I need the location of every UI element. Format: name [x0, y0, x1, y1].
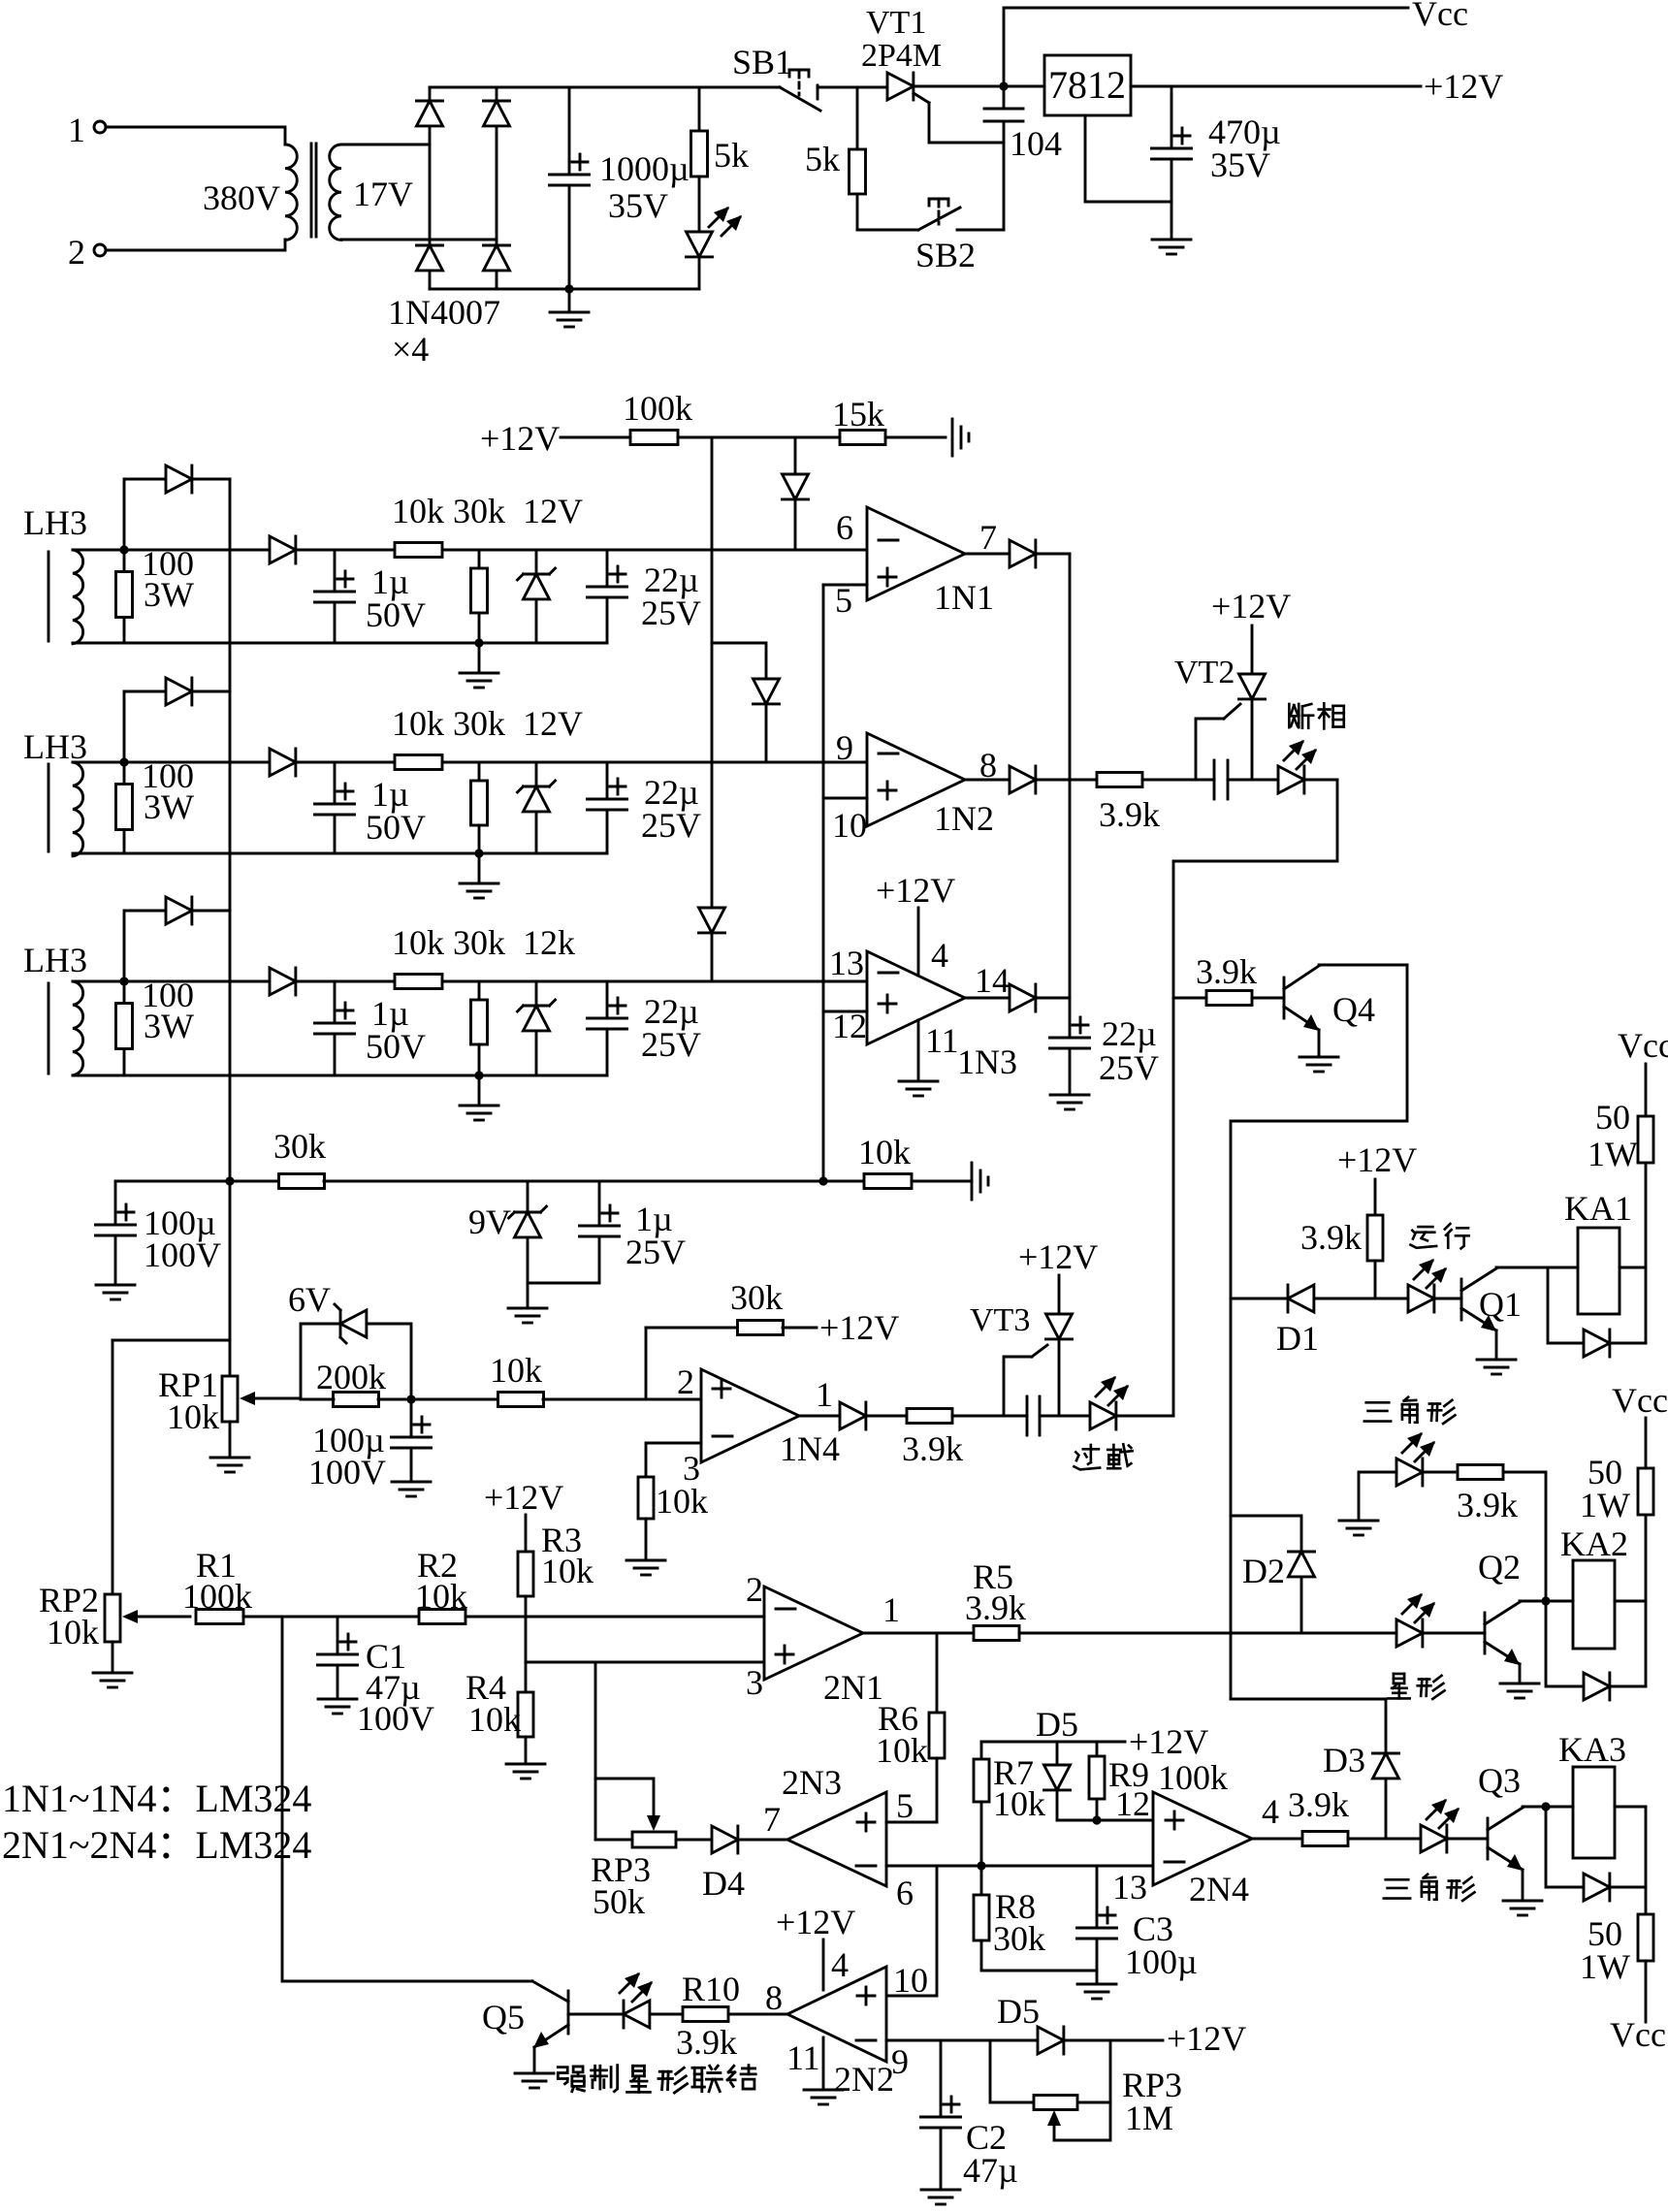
wire RP3 feed — [594, 1662, 597, 1840]
potentiometer RP3 1M — [990, 2040, 1182, 2140]
svg-text:SB2: SB2 — [915, 236, 976, 274]
svg-text:5: 5 — [896, 1786, 914, 1825]
ground — [460, 853, 498, 898]
wire 7812 ground — [1085, 115, 1171, 202]
svg-text:100µ: 100µ — [1125, 1942, 1198, 1981]
LED running — [1408, 1259, 1461, 1312]
diode D1 — [1276, 1285, 1408, 1358]
transformer T1 primary winding 380V — [203, 144, 297, 240]
svg-text:Q3: Q3 — [1478, 1761, 1521, 1800]
wire — [528, 1282, 599, 1285]
svg-text:1N3: 1N3 — [957, 1042, 1017, 1081]
svg-text:25V: 25V — [641, 1025, 701, 1064]
net Vcc KA3 — [1610, 1961, 1666, 2054]
node — [119, 757, 128, 766]
svg-text:9V: 9V — [468, 1202, 511, 1241]
node — [564, 284, 573, 293]
chassis ground — [952, 419, 969, 456]
wire — [341, 144, 430, 146]
resistor 30k — [453, 923, 505, 1075]
label pin1 — [816, 1375, 833, 1414]
capacitor coupling VT3 — [1027, 1396, 1090, 1435]
transistor Q4 — [1284, 965, 1407, 1072]
bridge diode D-a — [417, 87, 443, 245]
wire KA2 left leg — [1546, 1601, 1584, 1686]
bridge diode D-d — [484, 245, 510, 289]
svg-text:3.9k: 3.9k — [1300, 1218, 1362, 1257]
svg-text:KA3: KA3 — [1558, 1730, 1626, 1769]
diode bypass — [166, 678, 230, 705]
label pin10 — [893, 1961, 928, 2000]
svg-text:30k: 30k — [273, 1127, 326, 1166]
resistor 30k bias — [273, 1127, 864, 1189]
label force star text — [558, 2066, 755, 2093]
wire KA1 right leg — [1645, 1163, 1648, 1343]
svg-text:Vcc: Vcc — [1610, 2015, 1666, 2054]
op-amp 1N3 — [867, 951, 1017, 1081]
capacitor 22u 25V — [588, 762, 702, 853]
svg-text:14: 14 — [975, 961, 1010, 1000]
wire pin3 — [646, 1443, 701, 1477]
svg-text:6V: 6V — [288, 1280, 331, 1319]
ground — [460, 643, 498, 688]
label pin6 — [836, 508, 853, 547]
wire pin12 — [823, 1010, 867, 1013]
zener diode 12V — [518, 923, 576, 1075]
wire pin10 link — [886, 1866, 937, 1996]
svg-text:1N4: 1N4 — [780, 1429, 840, 1468]
wire pin10 — [823, 797, 867, 800]
svg-text:25V: 25V — [625, 1233, 686, 1271]
svg-text:+12V: +12V — [484, 1478, 563, 1517]
svg-text:25V: 25V — [1099, 1048, 1159, 1087]
wire bias rail — [115, 1180, 279, 1183]
svg-text:2N4: 2N4 — [1189, 1870, 1249, 1908]
resistor 3.9k 1N4 — [902, 1409, 1027, 1469]
label pin8 — [765, 1978, 783, 2017]
svg-text:×4: ×4 — [392, 330, 429, 369]
diode KA2 flyback — [1584, 1673, 1646, 1700]
svg-text:1N2: 1N2 — [934, 799, 994, 838]
ground — [1339, 1521, 1378, 1535]
svg-text:11: 11 — [925, 1021, 959, 1060]
wire bottom rail — [73, 1074, 607, 1077]
svg-text:10k: 10k — [392, 492, 444, 530]
transistor Q5 — [482, 1981, 568, 2088]
svg-text:3.9k: 3.9k — [902, 1429, 963, 1468]
svg-text:50k: 50k — [593, 1882, 645, 1921]
resistor 5k — [691, 87, 750, 232]
svg-text:D2: D2 — [1242, 1552, 1285, 1590]
label pin7 — [979, 518, 997, 557]
svg-text:10k: 10k — [415, 1577, 467, 1616]
wire bypass — [124, 691, 166, 762]
wire — [73, 549, 270, 552]
thyristor VT2 — [1174, 655, 1266, 780]
terminal 2 — [68, 233, 106, 272]
svg-text:50V: 50V — [366, 1027, 426, 1066]
capacitor 100u 100V (2) — [308, 1399, 432, 1496]
wire pin5 — [823, 584, 867, 587]
net +12V VT2 — [1211, 587, 1291, 674]
capacitor C3 100u — [1077, 1866, 1198, 1999]
svg-text:3W: 3W — [144, 575, 194, 614]
svg-text:4: 4 — [1262, 1792, 1279, 1831]
capacitor 1u 25V bias — [580, 1181, 687, 1283]
label pin13 — [829, 944, 864, 982]
node — [474, 1071, 483, 1079]
capacitor coupling VT2 — [1214, 760, 1278, 799]
svg-text:6: 6 — [896, 1874, 914, 1912]
wire pin5 2N3 — [886, 1821, 937, 1824]
current transformer LH3 — [23, 727, 87, 856]
svg-text:30k: 30k — [730, 1278, 783, 1317]
label yunxing — [1410, 1224, 1468, 1248]
svg-text:2: 2 — [746, 1570, 763, 1609]
svg-text:KA1: KA1 — [1564, 1189, 1632, 1228]
wire pin9 2N2 — [886, 2039, 990, 2042]
wire bypass — [124, 911, 166, 981]
svg-text:9: 9 — [836, 728, 853, 767]
resistor R1 100k — [182, 1546, 419, 1624]
svg-text:2: 2 — [677, 1362, 694, 1401]
svg-text:5k: 5k — [714, 136, 749, 175]
capacitor 22u 25V — [588, 981, 702, 1075]
wire out 1N2 — [965, 779, 1010, 782]
relay KA2 — [1546, 1524, 1646, 1649]
resistor R3 10k — [518, 1521, 593, 1662]
label pin1 — [882, 1590, 900, 1629]
svg-text:Vcc: Vcc — [1612, 1381, 1668, 1420]
wire bottom rail — [430, 288, 699, 291]
svg-text:Vcc: Vcc — [1618, 1026, 1668, 1065]
wire bottom rail — [73, 642, 607, 645]
label pin5 — [835, 581, 852, 620]
resistor 200k — [301, 1358, 498, 1407]
node — [1541, 1802, 1550, 1811]
svg-text:Q4: Q4 — [1332, 990, 1375, 1029]
label duanxiang — [1289, 703, 1343, 728]
wire RP2 top link — [112, 1339, 230, 1342]
capacitor 1000u 35V — [550, 87, 690, 289]
diode pull-up 1 — [783, 437, 809, 549]
wire pin11 2N2 — [786, 2037, 843, 2104]
svg-text:3: 3 — [746, 1663, 763, 1702]
svg-text:+12V: +12V — [776, 1903, 855, 1941]
svg-text:D1: D1 — [1276, 1319, 1319, 1358]
resistor 100k — [623, 389, 840, 445]
wire pin11 ground — [899, 1020, 959, 1096]
svg-text:1W: 1W — [1580, 1947, 1630, 1986]
diode D2 — [1242, 1552, 1315, 1633]
label pin7 — [763, 1800, 781, 1839]
label guozai — [1074, 1444, 1132, 1469]
svg-text:+12V: +12V — [1211, 587, 1291, 625]
capacitor 1u 50V — [315, 981, 427, 1075]
bus op-amp inputs — [822, 585, 825, 1181]
svg-text:1N4007: 1N4007 — [388, 293, 500, 332]
transistor Q2 — [1478, 1548, 1546, 1698]
svg-text:10: 10 — [893, 1961, 928, 2000]
resistor R4 10k — [465, 1662, 545, 1779]
wire KA3 right leg — [1645, 1807, 1648, 1887]
resistor 100 3W — [116, 756, 195, 853]
diode D5 upper — [1036, 1705, 1078, 1820]
wire top rail — [430, 86, 780, 89]
svg-text:LH3: LH3 — [23, 941, 87, 979]
svg-text:1W: 1W — [1588, 1135, 1638, 1173]
svg-text:D4: D4 — [702, 1864, 745, 1903]
svg-text:50: 50 — [1595, 1098, 1630, 1137]
svg-text:25V: 25V — [641, 593, 701, 632]
svg-text:100k: 100k — [1158, 1758, 1228, 1797]
resistor 3.9k Q4 — [1173, 952, 1284, 1006]
label pin12 — [1115, 1784, 1150, 1823]
svg-text:1000µ: 1000µ — [599, 149, 690, 188]
resistor 30k — [453, 704, 505, 853]
net +12V KA1 — [1337, 1140, 1417, 1215]
svg-text:17V: 17V — [353, 175, 413, 213]
svg-text:3.9k: 3.9k — [1457, 1486, 1518, 1524]
wire — [1359, 1472, 1396, 1521]
svg-text:+12V: +12V — [480, 419, 560, 458]
label pin12 — [832, 1007, 867, 1045]
wire RP3 wiper link — [595, 1779, 660, 1831]
node — [818, 1176, 827, 1185]
svg-text:2P4M: 2P4M — [861, 38, 942, 74]
svg-text:3.9k: 3.9k — [1288, 1785, 1349, 1824]
svg-text:1N1: 1N1 — [934, 578, 994, 617]
resistor 10k RP1 row — [490, 1351, 701, 1407]
bridge diode D-c — [417, 245, 443, 289]
svg-text:10k: 10k — [392, 923, 444, 962]
svg-text:1N1~1N4：LM324: 1N1~1N4：LM324 — [2, 1777, 311, 1820]
LED overload — [1090, 1376, 1173, 1429]
branch LED delta KA2 — [1503, 1472, 1546, 1601]
svg-text:10k: 10k — [490, 1351, 542, 1390]
svg-text:SB1: SB1 — [732, 43, 792, 81]
svg-text:12V: 12V — [523, 704, 583, 743]
resistor 5k (2) — [805, 87, 866, 230]
zener diode 9V — [468, 1181, 547, 1283]
svg-text:11: 11 — [786, 2038, 820, 2077]
svg-text:+12V: +12V — [876, 871, 955, 910]
wire out 1N1 — [965, 553, 1010, 556]
wire — [341, 239, 497, 241]
potentiometer RP2 10k — [39, 1340, 190, 1687]
svg-text:1M: 1M — [1125, 2099, 1173, 2137]
resistor R9 100k — [1089, 1742, 1228, 1820]
svg-text:2N2: 2N2 — [834, 2060, 894, 2099]
svg-text:10k: 10k — [993, 1784, 1045, 1823]
svg-text:1W: 1W — [1580, 1486, 1630, 1524]
LED delta — [1396, 1432, 1455, 1486]
node — [119, 977, 128, 985]
net Vcc KA1 — [1618, 1026, 1668, 1116]
resistor R6 10k — [876, 1633, 945, 1822]
label pin10 — [832, 806, 867, 845]
svg-text:35V: 35V — [1210, 145, 1270, 184]
transformer core — [311, 144, 316, 237]
switch SB1 — [732, 43, 887, 111]
wire branch — [712, 643, 766, 679]
svg-text:100k: 100k — [623, 389, 692, 428]
wire — [106, 127, 285, 144]
transistor Q1 — [1461, 1267, 1548, 1374]
resistor 10k — [392, 923, 444, 989]
capacitor 22u 25V — [588, 550, 702, 643]
diode bypass — [166, 465, 230, 493]
resistor 10k bias — [858, 1133, 972, 1189]
node — [1541, 1596, 1550, 1605]
svg-text:LH3: LH3 — [23, 727, 87, 766]
resistor 3.9k — [1070, 773, 1214, 835]
wire to Q5 — [282, 1617, 532, 1981]
resistor 100 3W — [116, 976, 195, 1075]
capacitor 22u 25V out — [1050, 1014, 1160, 1109]
svg-text:22µ: 22µ — [1102, 1014, 1157, 1053]
svg-text:10k: 10k — [167, 1397, 219, 1436]
svg-text:50V: 50V — [366, 595, 426, 634]
diode signal — [270, 749, 296, 776]
svg-text:3.9k: 3.9k — [965, 1588, 1026, 1627]
node — [474, 849, 483, 857]
LED power indicator — [687, 207, 743, 289]
terminal 1 — [68, 111, 106, 149]
ground — [460, 1075, 498, 1120]
current transformer LH3 — [23, 503, 87, 644]
svg-text:+12V: +12V — [819, 1308, 899, 1347]
svg-text:2N1: 2N1 — [823, 1668, 883, 1707]
net +12V R3 — [484, 1478, 563, 1552]
ground — [508, 1283, 547, 1323]
wire bypass — [124, 479, 166, 550]
relay KA1 — [1548, 1189, 1646, 1314]
wire — [296, 549, 867, 552]
resistor 3.9k KA1 — [1300, 1215, 1383, 1298]
node — [406, 1395, 415, 1403]
regulator U1 7812 — [1044, 55, 1131, 115]
svg-text:50V: 50V — [366, 808, 426, 847]
op-amp 1N2 — [867, 733, 994, 838]
op-amp 2N2 — [787, 1967, 894, 2099]
svg-text:3.9k: 3.9k — [1196, 952, 1257, 991]
diode KA3 flyback — [1584, 1874, 1646, 1901]
svg-text:4: 4 — [931, 936, 948, 975]
transformer T1 secondary winding 17V — [330, 144, 413, 240]
wire — [106, 240, 285, 250]
wire — [296, 980, 867, 983]
svg-text:30k: 30k — [453, 492, 505, 530]
net +12V VT3 — [1018, 1237, 1098, 1314]
op-amp 2N4 — [1153, 1792, 1252, 1908]
wire pin3 2N1 — [526, 1661, 764, 1664]
svg-text:VT2: VT2 — [1174, 655, 1235, 690]
svg-text:VT1: VT1 — [866, 5, 926, 41]
wire +12V rail — [981, 1722, 1208, 1761]
ground — [1152, 202, 1191, 254]
wire LED return — [1173, 780, 1337, 1416]
net +12V — [1131, 67, 1503, 106]
label 1N4007 x4 — [388, 293, 500, 369]
bus outputs — [1069, 554, 1072, 1038]
label pin8 — [979, 746, 997, 785]
svg-text:12k: 12k — [523, 923, 575, 962]
svg-text:+12V: +12V — [1337, 1140, 1417, 1179]
svg-text:R10: R10 — [682, 1970, 740, 2008]
svg-text:4: 4 — [831, 1945, 849, 1984]
svg-text:10k: 10k — [47, 1613, 99, 1651]
svg-text:1: 1 — [816, 1375, 833, 1414]
diode bypass — [166, 897, 230, 924]
label pin3 — [683, 1449, 700, 1488]
LED force-star — [568, 1972, 683, 2028]
wire VT2 gate — [1196, 704, 1240, 780]
svg-text:3W: 3W — [144, 787, 194, 826]
svg-text:30k: 30k — [453, 704, 505, 743]
svg-text:+12V: +12V — [1167, 2019, 1246, 2058]
zener diode 6V loop — [288, 1280, 411, 1399]
svg-text:10k: 10k — [392, 704, 444, 743]
label pin9 — [836, 728, 853, 767]
svg-text:1: 1 — [68, 111, 85, 149]
label pin2 — [677, 1362, 694, 1401]
node — [225, 1176, 234, 1185]
svg-text:8: 8 — [765, 1978, 783, 2017]
net Vcc KA2 — [1612, 1381, 1668, 1468]
svg-text:5k: 5k — [805, 140, 840, 178]
svg-text:380V: 380V — [203, 178, 280, 217]
diode D3 — [1323, 1741, 1399, 1839]
resistor R10 3.9k — [676, 1970, 787, 2062]
net +12V 2N2 — [776, 1903, 855, 1990]
svg-text:7: 7 — [979, 518, 997, 557]
LED phase-loss — [1278, 740, 1337, 793]
svg-text:Q2: Q2 — [1478, 1548, 1521, 1587]
wire pin6 2N3 — [886, 1865, 1153, 1868]
svg-text:12: 12 — [1115, 1784, 1150, 1823]
switch SB2 — [857, 199, 1004, 274]
diode D4 — [702, 1826, 787, 1903]
potentiometer RP3 50k — [591, 1832, 712, 1921]
op-amp 2N1 — [764, 1587, 883, 1707]
svg-text:2N3: 2N3 — [782, 1763, 842, 1802]
capacitor 1u 50V — [315, 550, 427, 643]
capacitor 100u 100V — [96, 1181, 222, 1299]
op-amp 2N3 — [782, 1763, 886, 1886]
capacitor C1 47u 100V — [318, 1617, 435, 1738]
wire — [296, 761, 867, 764]
resistor 10k — [392, 492, 444, 558]
wire Q4 collector — [1231, 965, 1407, 1699]
wire — [914, 85, 1044, 88]
node — [977, 1861, 985, 1870]
svg-text:7: 7 — [763, 1800, 781, 1839]
resistor 10k pin3 — [626, 1477, 708, 1575]
svg-text:3.9k: 3.9k — [1099, 795, 1160, 834]
diode D5 lower — [990, 1992, 1246, 2058]
wire — [73, 761, 270, 764]
resistor R2 10k — [415, 1546, 764, 1624]
node — [1092, 1815, 1101, 1824]
ground — [550, 289, 589, 327]
svg-text:LH3: LH3 — [23, 503, 87, 542]
resistor 10k — [392, 704, 444, 770]
svg-text:D5: D5 — [1036, 1705, 1078, 1744]
wire bypass bus — [229, 479, 232, 1181]
svg-text:12V: 12V — [523, 492, 583, 530]
svg-text:10: 10 — [832, 806, 867, 845]
